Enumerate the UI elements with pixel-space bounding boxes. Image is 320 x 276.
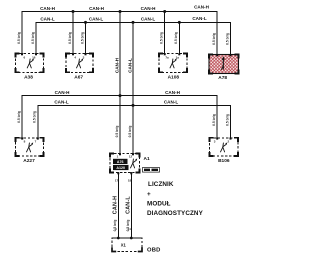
svg-text:17: 17	[115, 179, 119, 183]
svg-text:CAN-L: CAN-L	[164, 99, 178, 104]
svg-text:0.5 br/g: 0.5 br/g	[68, 32, 72, 44]
svg-text:CAN-H: CAN-H	[55, 90, 70, 95]
module A1 (cluster) box outline	[110, 154, 140, 173]
net label CAN-H row2	[55, 90, 181, 95]
svg-text:6: 6	[23, 55, 25, 59]
svg-text:A38: A38	[24, 75, 33, 81]
svg-text:CAN-L: CAN-L	[89, 16, 103, 21]
svg-text:3: 3	[214, 140, 216, 144]
svg-text:0.5 br/g: 0.5 br/g	[212, 33, 216, 45]
svg-text:CAN-H: CAN-H	[165, 90, 180, 95]
svg-text:0.5 br/g: 0.5 br/g	[225, 114, 229, 126]
svg-text:16: 16	[32, 55, 36, 59]
svg-text:B106: B106	[218, 158, 230, 164]
svg-text:18: 18	[128, 179, 132, 183]
A108 pins	[164, 53, 181, 59]
svg-text:CAN-H: CAN-H	[194, 5, 209, 10]
svg-text:8: 8	[24, 140, 26, 144]
net label CAN-L row2	[54, 99, 178, 104]
svg-text:1a: 1a	[176, 55, 180, 59]
ECU B106 box outline	[210, 138, 239, 156]
B106 pins	[214, 137, 232, 143]
svg-text:CAN-L: CAN-L	[127, 58, 132, 73]
wire CAN-H bus row2 (corners down to A227 and B106)	[22, 96, 217, 138]
svg-text:X1: X1	[121, 243, 127, 248]
svg-text:A108: A108	[168, 75, 180, 81]
wire gauge labels OBD wires	[113, 220, 130, 232]
svg-text:+: +	[147, 191, 151, 198]
svg-text:0.5 br/g: 0.5 br/g	[174, 32, 178, 44]
svg-text:CAN-L: CAN-L	[192, 16, 206, 21]
A108 plug symbol	[170, 58, 177, 68]
junction dots row1 CAN-H	[72, 10, 167, 13]
svg-text:CAN-H: CAN-H	[141, 6, 156, 11]
svg-text:11: 11	[128, 227, 132, 231]
wire module to OBD CAN-L	[130, 173, 132, 239]
svg-text:A76: A76	[117, 160, 124, 164]
svg-text:CAN-L: CAN-L	[54, 99, 68, 104]
junction dot row2 CAN-H / trunk	[119, 94, 122, 97]
module chip label A76	[113, 159, 128, 164]
wire A67 CAN-H branch	[72, 12, 74, 54]
module chip label A120	[113, 165, 129, 170]
svg-text:DIAGNOSTYCZNY: DIAGNOSTYCZNY	[147, 210, 204, 217]
A67 plug symbol	[77, 58, 84, 68]
wire CAN-L bus row1 (with corners down to A38 and A78)	[36, 22, 231, 54]
svg-text:CAN-L: CAN-L	[40, 16, 54, 21]
svg-text:0.5 br/g: 0.5 br/g	[128, 126, 132, 138]
svg-text:0.5 br/g: 0.5 br/g	[160, 32, 164, 44]
svg-text:12: 12	[129, 155, 133, 159]
ECU A38 box outline	[16, 54, 44, 73]
ECU A227 box outline	[16, 138, 44, 156]
svg-text:A78: A78	[218, 75, 227, 81]
junction dot row2 CAN-L / trunk	[132, 104, 135, 107]
A78 pins	[216, 54, 231, 56]
svg-text:A1: A1	[144, 156, 150, 162]
svg-text:2: 2	[227, 140, 229, 144]
svg-text:A67: A67	[74, 75, 83, 81]
svg-text:0.5 br/g: 0.5 br/g	[31, 32, 35, 44]
A227 pins	[21, 137, 39, 143]
svg-text:CAN-H: CAN-H	[89, 6, 104, 11]
wire CAN-H trunk drop to module	[119, 12, 121, 154]
svg-text:7a: 7a	[165, 55, 169, 59]
A67 pins	[72, 53, 87, 59]
svg-text:CAN-L: CAN-L	[125, 196, 131, 214]
ECU A67 box outline	[66, 54, 93, 73]
junction dots row1 CAN-L	[84, 21, 181, 24]
module plug symbol	[131, 158, 138, 167]
svg-text:CAN-H: CAN-H	[112, 196, 118, 214]
svg-text:0.5 br/g: 0.5 br/g	[115, 126, 119, 138]
wire gauge labels row1	[17, 32, 230, 45]
A78 arrow symbol	[221, 56, 225, 70]
svg-text:4: 4	[74, 55, 76, 59]
svg-text:A120: A120	[116, 166, 125, 170]
svg-text:1: 1	[117, 155, 119, 159]
svg-text:CAN-H: CAN-H	[114, 57, 119, 73]
svg-text:LICZNIK: LICZNIK	[148, 181, 174, 188]
ECU A108 box outline	[159, 54, 187, 73]
svg-text:A227: A227	[23, 158, 35, 164]
A38 plug symbol	[27, 58, 34, 68]
wire module to OBD CAN-H	[117, 173, 119, 239]
wire A67 CAN-L branch	[85, 22, 87, 53]
wire A108 CAN-H branch	[164, 12, 166, 54]
svg-text:0.5 br/g: 0.5 br/g	[225, 33, 229, 45]
wire gauge labels row2	[17, 111, 229, 137]
svg-text:0.5 br/g: 0.5 br/g	[33, 111, 37, 123]
OBD pin dots	[115, 227, 133, 239]
net label CAN-H row1	[40, 5, 209, 11]
wire A108 CAN-L branch	[178, 22, 180, 53]
svg-text:OBD: OBD	[147, 248, 160, 254]
OBD socket X1 box	[112, 238, 142, 252]
svg-text:7: 7	[35, 140, 37, 144]
svg-text:0.5 br/g: 0.5 br/g	[17, 111, 21, 123]
wire CAN-H bus row1 (with corners down to A38 and A78)	[22, 12, 217, 55]
A227 plug symbol	[27, 142, 34, 151]
module pins bottom	[115, 172, 132, 182]
net label CAN-L row1	[40, 16, 206, 21]
svg-text:0.5 br/g: 0.5 br/g	[212, 114, 216, 126]
B106 plug symbol	[221, 142, 228, 151]
ECU A78 highlighted box (red hatch)	[209, 55, 239, 74]
A38 pins	[21, 53, 37, 59]
svg-text:0.5 br/g: 0.5 br/g	[17, 32, 21, 44]
svg-text:MODUŁ: MODUŁ	[147, 201, 171, 208]
wire CAN-L bus row2 (corners down to A227 and B106)	[38, 105, 231, 137]
connector code box X1/1	[143, 168, 160, 173]
module pins top	[117, 153, 134, 159]
svg-text:CAN-L: CAN-L	[141, 16, 155, 21]
svg-text:CAN-H: CAN-H	[40, 6, 55, 11]
svg-text:0.5 br/g: 0.5 br/g	[80, 32, 84, 44]
wire CAN-L trunk drop to module	[132, 22, 134, 153]
